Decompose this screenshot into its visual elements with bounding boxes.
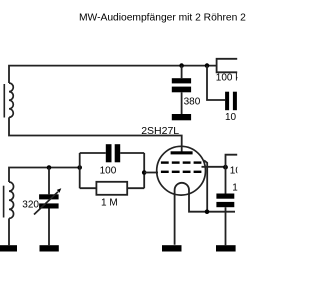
svg-text:100: 100: [100, 165, 117, 176]
label 10 at screen node: [230, 166, 242, 177]
wire C1 to ground: [48, 209, 50, 246]
capacitor C5 100: [106, 144, 120, 162]
svg-text:1 M: 1 M: [101, 198, 118, 209]
label 320: [22, 200, 39, 211]
ground under C2: [172, 114, 191, 120]
svg-text:MW-Audioempfänger mit 2 Röhren: MW-Audioempfänger mit 2 Röhren 2SH27L: [79, 12, 248, 23]
ground under C1: [40, 245, 59, 251]
coil L2: [9, 182, 14, 218]
arrow of variable capacitor C1: [34, 188, 61, 214]
capacitor C4 stack: [216, 194, 234, 208]
label 380: [184, 96, 201, 107]
label 100 k: [216, 73, 241, 84]
node junction rail at 380: [179, 63, 184, 68]
wire C4 to ground: [225, 207, 227, 245]
resistor R1 100k: [217, 59, 238, 73]
wire screen grid lead: [202, 166, 226, 168]
node junction screen: [223, 165, 228, 170]
wire tuned circuit: [9, 168, 80, 183]
coil L1: [9, 83, 13, 117]
svg-text:10: 10: [230, 166, 242, 177]
label 1 M: [101, 198, 118, 209]
resistor R2 1M: [96, 182, 127, 195]
ground under L2: [0, 245, 17, 251]
label 100: [100, 165, 117, 176]
ground under filament: [162, 245, 182, 251]
wire top rail: [9, 66, 217, 83]
title: [79, 12, 278, 23]
coil L1 core line: [3, 84, 5, 118]
wire suppressor grid to cathode: [204, 160, 207, 211]
wire L1 to anode: [9, 117, 182, 152]
svg-text:380: 380: [184, 96, 201, 107]
node junction cathode: [205, 209, 210, 214]
svg-text:100 k: 100 k: [216, 73, 241, 84]
capacitor C2 380: [172, 78, 191, 92]
node junction rail at C3: [205, 63, 210, 68]
node junction grid network right: [142, 170, 147, 175]
svg-text:320: 320: [22, 200, 39, 211]
ground under C4: [216, 245, 236, 251]
tube U1 filament and cathode wire: [175, 183, 235, 245]
wire to C1: [48, 168, 50, 195]
node junction grid network left: [77, 165, 82, 170]
wire rail to C2: [181, 66, 183, 79]
tube U1 anode plate: [171, 151, 193, 154]
wire grid network loop: [80, 153, 145, 188]
tube U1 grid row 2: [161, 171, 202, 173]
variable capacitor C1 320: [39, 194, 59, 208]
tube U1 2SH27L label: [141, 125, 179, 137]
coil L2 core line: [3, 186, 5, 218]
wire to control grid: [144, 172, 158, 174]
wire rail to C3: [207, 66, 225, 100]
svg-text:10: 10: [232, 183, 244, 194]
label 1 at capacitor C4: [232, 183, 244, 194]
node junction at C1: [47, 165, 52, 170]
svg-text:10: 10: [225, 112, 237, 123]
tube U1 grid row 1: [161, 161, 202, 163]
label 10: [225, 112, 237, 123]
capacitor C3 10: [225, 92, 237, 111]
svg-text:2SH27L: 2SH27L: [141, 125, 179, 137]
wire L2 to ground: [8, 218, 10, 245]
wire C2 to ground: [181, 92, 183, 114]
wire screen riser: [226, 155, 238, 194]
tube U1 envelope: [157, 146, 206, 195]
